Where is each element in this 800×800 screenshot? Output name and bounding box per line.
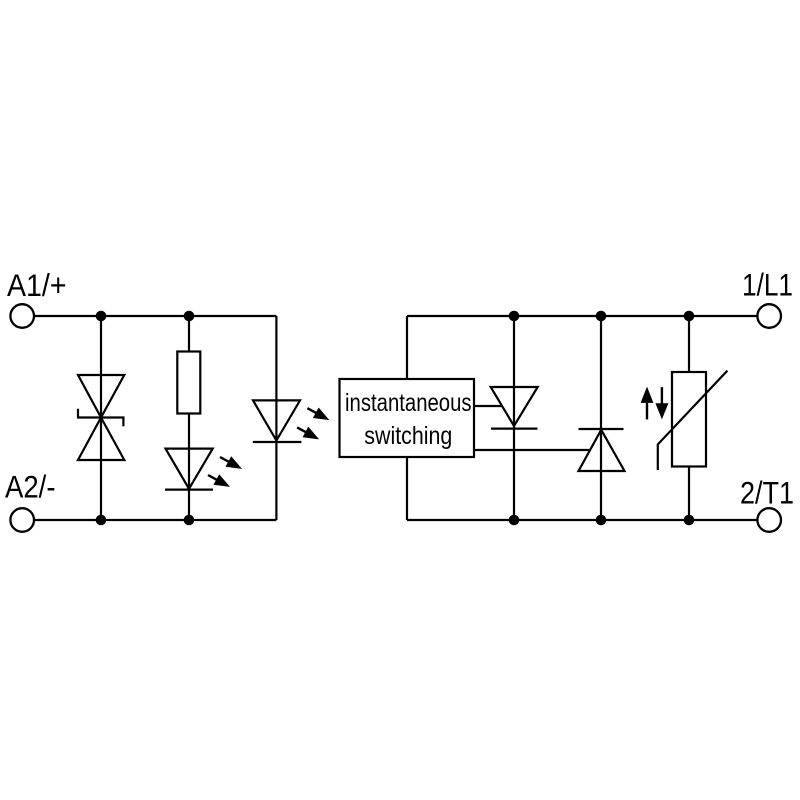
svg-text:A2/-: A2/- xyxy=(5,469,56,505)
svg-text:switching: switching xyxy=(364,422,452,450)
svg-text:A1/+: A1/+ xyxy=(7,267,67,303)
svg-text:1/L1: 1/L1 xyxy=(742,266,793,302)
svg-text:2/T1: 2/T1 xyxy=(740,475,794,511)
svg-text:instantaneous: instantaneous xyxy=(345,389,472,417)
